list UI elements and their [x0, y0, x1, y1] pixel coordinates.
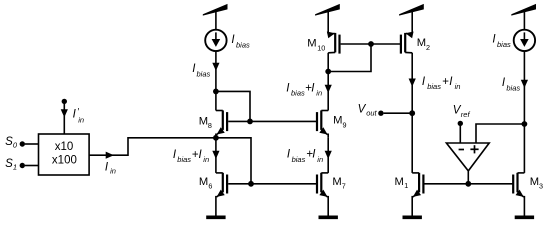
- svg-text:out: out: [366, 109, 377, 118]
- wire Iin box output to input node: [89, 138, 216, 176]
- svg-text:bias: bias: [197, 70, 211, 79]
- wire node to M6 drain, arrow Ibias+Iin: [173, 138, 220, 173]
- wire gate row M10-M2: [341, 43, 401, 45]
- svg-text:S: S: [5, 158, 13, 170]
- transistor M9: [317, 110, 347, 137]
- svg-text:I: I: [231, 34, 235, 46]
- transistor M2: [401, 30, 430, 54]
- wire flag to current source: [215, 9, 217, 30]
- wire S0 to box: [25, 143, 39, 145]
- node I'in input terminal: [62, 99, 84, 125]
- svg-text:ref: ref: [461, 110, 471, 119]
- svg-text:M: M: [395, 176, 404, 188]
- supply flag (M2 column): [399, 4, 424, 16]
- node Vref terminal: [453, 105, 471, 127]
- gain-select box (x10/x100): [39, 134, 90, 175]
- svg-text:I: I: [105, 162, 109, 174]
- svg-text:bias: bias: [427, 82, 441, 91]
- svg-text:1: 1: [13, 163, 17, 172]
- node M10/M2 gate junction: [368, 41, 374, 47]
- ground (M3 source): [515, 216, 534, 220]
- supply flag (left Ibias column): [203, 4, 228, 16]
- transistor M10: [307, 30, 339, 54]
- svg-text:bias: bias: [506, 83, 520, 92]
- node Vout junction: [409, 110, 415, 116]
- svg-text:I: I: [502, 77, 506, 89]
- wire M2 drain to M1 drain, arrow Ibias+Iin: [409, 53, 461, 173]
- wire op-amp output: [467, 171, 469, 184]
- svg-text:x100: x100: [52, 155, 77, 167]
- node M8 gate junction: [247, 119, 253, 125]
- supply flag (M10 column): [315, 4, 340, 16]
- svg-text:1: 1: [404, 181, 408, 190]
- ground (M6 source): [206, 216, 225, 220]
- svg-text:in: in: [203, 155, 209, 164]
- transistor M6: [199, 173, 227, 216]
- svg-text:M: M: [307, 38, 316, 50]
- wire flag to M10 source: [327, 9, 329, 34]
- wire M10 drain to M9 drain, arrow Ibias+Iin: [286, 72, 332, 111]
- wire M10 gate tie to drain: [328, 44, 371, 72]
- wire gate row M6-M7: [228, 183, 316, 185]
- node S0 terminal: [5, 136, 25, 150]
- wire current source to M3 drain, arrow Ibias: [502, 51, 528, 173]
- svg-text:+: +: [442, 76, 449, 88]
- svg-text:I: I: [449, 76, 453, 88]
- wire node to M6/M7 gate tie: [216, 138, 251, 184]
- svg-text:in: in: [316, 88, 322, 97]
- current source I_bias (left): [205, 30, 250, 51]
- svg-text:in: in: [455, 82, 461, 91]
- op-amp U1: [446, 143, 489, 171]
- svg-text:bias: bias: [177, 155, 191, 164]
- svg-text:in: in: [317, 155, 323, 164]
- svg-text:9: 9: [343, 120, 347, 129]
- wire M8 diode connection (drain to gate): [216, 91, 250, 121]
- transistor M8: [199, 110, 227, 137]
- svg-text:0: 0: [13, 141, 18, 150]
- svg-text:M: M: [199, 176, 208, 188]
- svg-text:I: I: [73, 109, 77, 121]
- wire flag to current source: [523, 9, 525, 30]
- svg-text:bias: bias: [236, 41, 250, 50]
- node Vout terminal: [358, 103, 384, 117]
- svg-text:I: I: [287, 149, 291, 161]
- ground (M7 source): [319, 216, 338, 220]
- svg-text:M: M: [417, 37, 426, 49]
- node Iin summing junction: [213, 135, 219, 141]
- wire current source to M8 drain node, arrow Ibias: [192, 51, 219, 91]
- svg-text:I: I: [199, 149, 203, 161]
- wire M10 drain to junction: [327, 53, 329, 72]
- svg-text:in: in: [110, 167, 116, 176]
- wire non-inverting input to M3 drain node: [476, 124, 524, 143]
- ground (M1 source): [403, 216, 422, 220]
- svg-text:bias: bias: [291, 88, 305, 97]
- svg-text:10: 10: [317, 44, 325, 53]
- node S1 terminal: [5, 158, 25, 172]
- wire flag to M2 source: [411, 9, 413, 34]
- wire S1 to box: [25, 165, 39, 167]
- svg-text:M: M: [332, 176, 341, 188]
- supply flag (right Ibias column): [511, 4, 536, 16]
- svg-text:M: M: [199, 115, 208, 127]
- svg-text:bias: bias: [292, 155, 306, 164]
- transistor M3: [513, 173, 543, 216]
- svg-text:I: I: [286, 82, 290, 94]
- svg-text:bias: bias: [497, 40, 511, 49]
- transistor M7: [317, 173, 346, 216]
- svg-text:I: I: [492, 34, 496, 46]
- wire M9 source to M7 drain, arrow Ibias+Iin: [287, 138, 332, 173]
- svg-text:6: 6: [208, 181, 212, 190]
- node M8 drain junction: [213, 89, 219, 95]
- svg-text:in: in: [78, 115, 84, 124]
- wire I'in into box with current arrow: [61, 104, 68, 135]
- svg-text:S: S: [5, 136, 13, 148]
- svg-text:M: M: [333, 115, 342, 127]
- wire gate row M1-M3: [425, 183, 514, 185]
- node op-amp output junction: [465, 181, 471, 187]
- node non-inverting input junction: [522, 121, 528, 127]
- current source I_bias (right): [492, 30, 535, 51]
- wire Vout to M2 drain column: [384, 112, 413, 114]
- svg-text:I: I: [173, 149, 177, 161]
- node M10 drain junction: [325, 69, 331, 75]
- wire gate row M8-M9: [228, 120, 316, 122]
- svg-text:x10: x10: [55, 141, 74, 153]
- wire Vref to inverting input: [459, 126, 461, 143]
- transistor M1: [395, 173, 424, 216]
- svg-text:7: 7: [342, 181, 346, 190]
- svg-text:3: 3: [539, 181, 543, 190]
- svg-text:I: I: [311, 82, 315, 94]
- svg-text:8: 8: [208, 121, 212, 130]
- svg-text:2: 2: [426, 43, 430, 52]
- svg-text:I: I: [422, 76, 426, 88]
- svg-text:I: I: [312, 149, 316, 161]
- node M6/M7 gate junction: [248, 181, 254, 187]
- wire M8 drain feed: [215, 91, 217, 110]
- svg-text:M: M: [530, 176, 539, 188]
